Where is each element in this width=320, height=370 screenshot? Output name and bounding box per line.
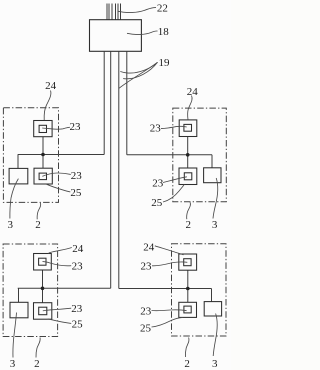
leader 3 LR (213, 314, 217, 357)
svg-text:24: 24 (143, 241, 155, 253)
bus riser inner-right wire (118, 51, 120, 288)
svg-text:2: 2 (34, 358, 40, 370)
actuator 3 UR (204, 168, 221, 183)
svg-text:19: 19 (159, 57, 171, 69)
wire drop to actuator LR (211, 289, 213, 302)
leader 25 UL (46, 184, 70, 192)
svg-text:3: 3 (7, 219, 13, 231)
wire vertical LL sensors (42, 270, 44, 303)
leader 23 LR bottom (152, 309, 187, 312)
svg-text:23: 23 (71, 303, 83, 315)
sensor 23 LR bottom outer (179, 302, 197, 317)
sensor 23 UR bottom outer (179, 168, 197, 185)
sensor 23 LL bottom inner 25 (39, 307, 47, 315)
leader 3 UL (10, 179, 19, 219)
leader 3 UR (213, 178, 218, 219)
junction node LL (41, 287, 45, 291)
sensor 23 UL top inner 24 (39, 125, 46, 132)
sensor 23 UL bottom outer (34, 168, 52, 184)
leader 23 UR top (161, 126, 187, 128)
sensor 23 UR bottom inner 25 (184, 173, 192, 180)
bus riser right outer wire (126, 51, 128, 155)
leader 23 LR top (152, 262, 187, 266)
leader 24 LR (155, 246, 184, 255)
junction node LR (186, 287, 190, 291)
svg-text:25: 25 (70, 187, 82, 199)
dash-dot boundary box UR unit 2 (173, 108, 227, 202)
wire vertical LR sensors (187, 270, 189, 302)
sensor 23 LL bottom outer (34, 303, 52, 320)
svg-text:22: 22 (157, 3, 168, 15)
sensor 23 LR top outer (179, 254, 197, 270)
wire horizontal lower-left branch (18, 287, 111, 289)
junction node UR (186, 153, 190, 157)
leader 23 UL top (42, 127, 70, 129)
leader 24 UR (188, 96, 192, 120)
svg-text:24: 24 (72, 243, 84, 255)
svg-text:25: 25 (140, 322, 152, 334)
leader 18 (127, 31, 158, 35)
sensor 23 UL bottom inner 25 (39, 173, 46, 180)
svg-text:25: 25 (72, 319, 84, 331)
leader 25 LL (48, 319, 72, 323)
wire vertical UL sensors (42, 137, 44, 169)
sensor 23 LL top outer (34, 254, 52, 271)
wire horizontal upper-right branch (127, 154, 212, 156)
wire drop to actuator UL (17, 155, 19, 169)
dash-dot boundary box LR unit 2 (172, 244, 227, 336)
svg-text:23: 23 (70, 121, 82, 133)
wire horizontal lower-right branch (119, 288, 212, 290)
svg-text:3: 3 (212, 358, 218, 370)
leader 2 LR (185, 338, 189, 358)
leader 2 LL (36, 338, 40, 358)
actuator 3 UL (9, 168, 28, 184)
wire drop to actuator UR (211, 155, 213, 168)
leader 23 LL top (43, 262, 72, 266)
leader 23 UR bottom (163, 177, 187, 183)
svg-text:25: 25 (151, 197, 163, 209)
wire vertical UR sensors (187, 137, 189, 169)
leader 25 UR (163, 184, 184, 202)
sensor 23 LL top inner 24 (39, 258, 46, 265)
leader 23 LL bottom (43, 308, 71, 311)
swoosh pointer 19 (119, 62, 158, 88)
sensor 23 UR top outer (179, 120, 197, 137)
sensor 23 UL top outer (34, 121, 52, 137)
leader 2 UL (37, 203, 41, 220)
svg-text:2: 2 (35, 219, 41, 231)
svg-text:2: 2 (184, 358, 190, 370)
leader 23 UL bottom (42, 173, 70, 176)
leader 3 LL (13, 313, 17, 358)
actuator 3 LR (204, 302, 221, 316)
leader 24 LL (48, 248, 72, 254)
svg-text:24: 24 (187, 86, 199, 98)
sensor 23 UR top inner 24 (184, 124, 192, 131)
svg-text:23: 23 (150, 123, 162, 135)
svg-text:23: 23 (140, 306, 152, 318)
dash-dot boundary box LL unit 2 (3, 244, 58, 337)
junction node UL (41, 153, 45, 157)
leader 2 UR (187, 202, 191, 219)
wire cable 22 lines above box (107, 4, 121, 21)
svg-text:23: 23 (71, 170, 83, 182)
svg-text:23: 23 (152, 177, 164, 189)
svg-text:3: 3 (212, 219, 218, 231)
wire drop to actuator LL (18, 288, 20, 302)
leader 22 (119, 8, 157, 13)
sensor 23 LR top inner 24 (184, 259, 191, 266)
svg-text:24: 24 (45, 80, 57, 92)
control unit box 18 (90, 20, 142, 52)
leader 24 UL (44, 91, 51, 121)
actuator 3 LL (10, 302, 28, 318)
dash-dot boundary box UL unit 2 (3, 108, 58, 203)
svg-text:23: 23 (141, 261, 153, 273)
leader 25 LR (152, 317, 183, 327)
svg-text:2: 2 (185, 219, 191, 231)
svg-text:23: 23 (72, 261, 84, 273)
bus riser inner-left wire (110, 51, 112, 288)
svg-text:3: 3 (10, 358, 16, 370)
svg-text:18: 18 (158, 26, 170, 38)
sensor 23 LR bottom inner 25 (184, 306, 191, 313)
bus riser left outer wire (103, 51, 105, 154)
wire horizontal upper-left branch (18, 154, 105, 156)
